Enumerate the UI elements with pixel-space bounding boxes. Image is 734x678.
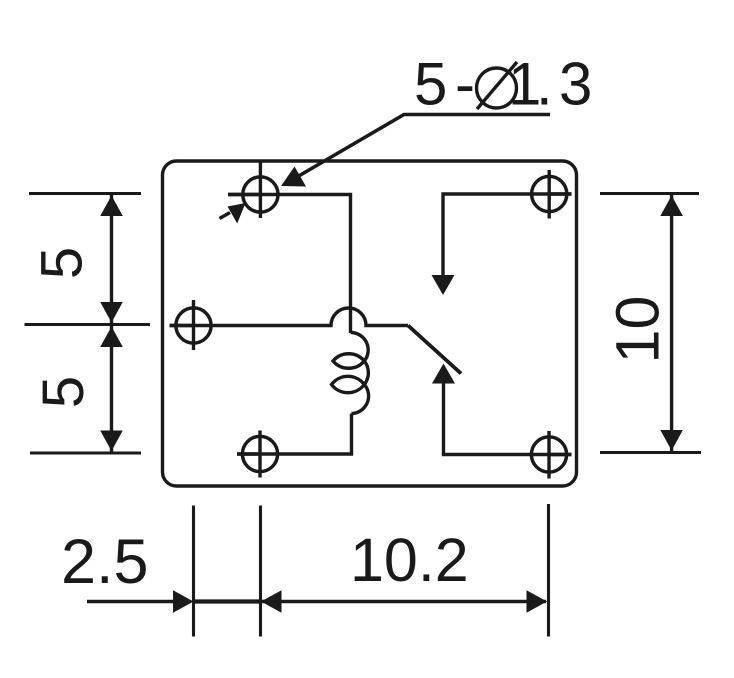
svg-text:5: 5 (31, 376, 96, 408)
wire pin2 to NO contact (443, 194, 572, 275)
svg-text:5: 5 (30, 247, 95, 279)
switch blade (408, 326, 461, 374)
NO contact arrow (down) (432, 275, 455, 295)
wire common contact to pin5 (444, 384, 572, 455)
pin 4 (bottom-left hole) (237, 431, 278, 478)
dimension 2.5 bottom: arrow and line (87, 590, 261, 613)
dimension 10.2 bottom: dimension line with arrows (261, 590, 547, 613)
pin 5 (bottom-right hole) (531, 431, 571, 479)
dimension 5 lower: dimension line with arrows (100, 326, 123, 452)
dimension 5 upper: extension ticks (29, 192, 141, 195)
pin 3 (middle-left hole) (170, 300, 212, 350)
pin 2 (top-right hole) (532, 170, 572, 219)
svg-text:3: 3 (559, 51, 592, 118)
leader line and underline (285, 115, 550, 185)
svg-text:5: 5 (414, 51, 447, 118)
dimension 10 right: extension ticks (600, 192, 699, 195)
svg-text:10.2: 10.2 (350, 526, 469, 594)
dimension 2.5 bottom: extension lines (192, 506, 195, 637)
label diameter symbol (477, 62, 518, 109)
svg-text:-: - (455, 51, 475, 118)
common contact arrow (up) (432, 364, 455, 384)
dimension 10 right: dimension line with arrows (660, 195, 683, 451)
leader arrowhead at pin 1 (281, 167, 306, 187)
pin 1 (top-left hole) (228, 162, 278, 219)
svg-text:.: . (536, 51, 553, 118)
dimension 5 lower: extension tick (30, 451, 141, 454)
relay body outline (163, 161, 577, 486)
wire pin1 to coil top (228, 195, 351, 334)
wire coil bottom to pin4 (237, 414, 352, 455)
wire pin3 to switch (with coil hump) (170, 308, 409, 326)
label 5-diam1.3 text (414, 51, 592, 118)
dimension 10.2 bottom: extension line (547, 504, 550, 637)
dimension 5 upper: dimension line with arrows (100, 195, 123, 323)
coil K1 (332, 332, 369, 413)
opposite diameter arrow at pin 1 (220, 203, 246, 224)
svg-text:2.5: 2.5 (61, 527, 149, 597)
svg-text:10: 10 (604, 296, 672, 364)
